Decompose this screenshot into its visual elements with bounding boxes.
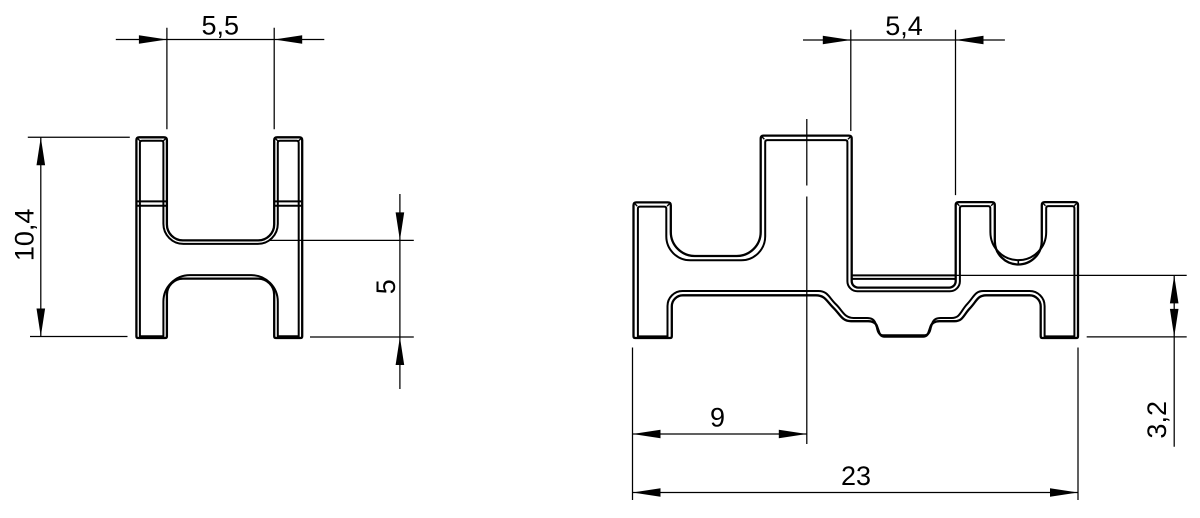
svg-text:5,5: 5,5 bbox=[202, 10, 240, 40]
dimension 5 line bbox=[399, 194, 401, 389]
dimension 5,4 extension lines bbox=[851, 30, 956, 195]
dimension 5,5 arrows bbox=[139, 35, 302, 44]
corner crossing ticks right profile valleys bbox=[676, 247, 1018, 264]
dimension 9 arrows bbox=[633, 430, 807, 439]
corner chamfer ticks right profile towers bbox=[634, 136, 1077, 206]
right profile inner tangent contour bbox=[638, 140, 1075, 336]
dimension 5,4 line bbox=[803, 39, 1005, 41]
dimension 23 line bbox=[633, 492, 1079, 494]
corner crossing ticks left profile channels bbox=[170, 234, 271, 285]
svg-text:5: 5 bbox=[371, 279, 401, 294]
dimension 3,2 arrows bbox=[1170, 275, 1179, 337]
dimension 3,2 line bbox=[1173, 275, 1175, 446]
dimension 10,4 line bbox=[40, 137, 42, 336]
corner chamfer ticks left profile legs bbox=[137, 138, 301, 141]
dimension 5,4 arrows bbox=[823, 36, 984, 45]
dimension 10,4 arrows bbox=[37, 137, 46, 336]
right profile groove seam lines bbox=[852, 275, 956, 279]
dimension 5 arrows bbox=[396, 212, 405, 365]
dimension 5 extension lines bbox=[270, 240, 414, 337]
left profile left leg seam lines bbox=[136, 201, 167, 205]
dimension 5,5 extension lines bbox=[167, 28, 274, 130]
dimension 10,4 extension lines bbox=[28, 137, 130, 336]
dimension 3,2 extension lines bbox=[956, 275, 1187, 337]
left profile outer contour bbox=[136, 137, 302, 338]
svg-text:9: 9 bbox=[710, 403, 725, 433]
svg-text:3,2: 3,2 bbox=[1142, 401, 1172, 439]
left profile right leg seam lines bbox=[274, 201, 302, 205]
svg-text:5,4: 5,4 bbox=[885, 11, 923, 41]
dimension 9 line bbox=[633, 433, 807, 435]
dimension 9 centerline bbox=[806, 119, 808, 444]
svg-text:10,4: 10,4 bbox=[9, 209, 39, 262]
right profile outer contour bbox=[634, 136, 1079, 338]
dimension 5,5 line bbox=[116, 39, 324, 41]
left profile inner tangent contour bbox=[140, 141, 299, 336]
dimension 23 arrows bbox=[633, 488, 1079, 497]
dimension 23 extension lines bbox=[633, 348, 1079, 501]
svg-text:23: 23 bbox=[841, 461, 871, 491]
